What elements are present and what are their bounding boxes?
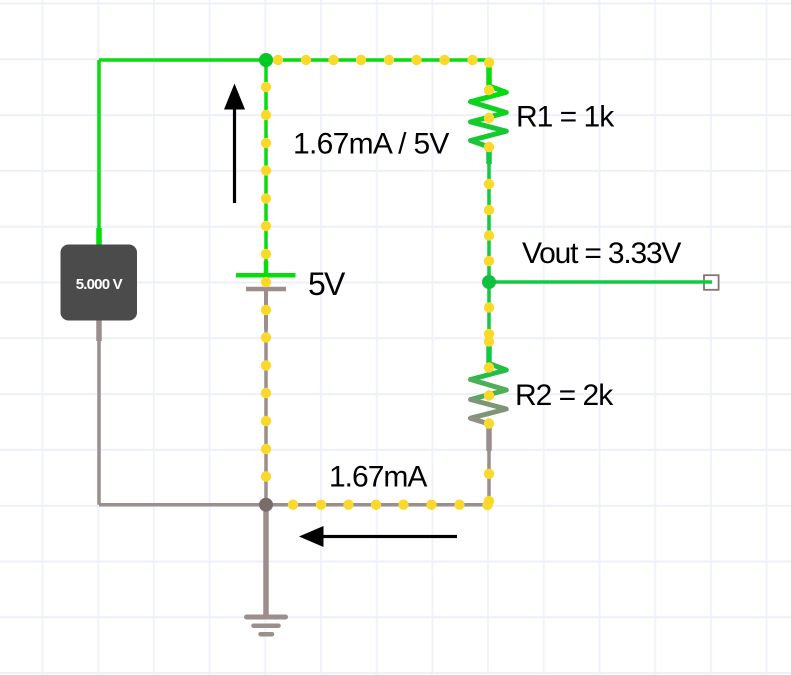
wire: Vout junction to R2 (487, 282, 491, 345)
svg-text:R2 = 2k: R2 = 2k (515, 379, 614, 412)
svg-text:1.67mA: 1.67mA (329, 461, 427, 494)
current arrow left (299, 526, 457, 547)
battery V1: top wire from junction (264, 60, 268, 262)
junction node: top (5V net) (259, 53, 273, 67)
current dots: R1 branch (484, 85, 494, 266)
output terminal post (704, 275, 719, 290)
wire: bottom rail left segment (99, 503, 266, 507)
junction node: bottom (ground net) (259, 498, 273, 512)
resistor R2 top lead (486, 344, 492, 364)
svg-text:R1 = 1k: R1 = 1k (516, 101, 615, 134)
wire: Vout junction to output terminal (489, 280, 712, 284)
resistor R2 zigzag (471, 364, 507, 425)
wire: left vertical down to voltmeter (97, 60, 101, 230)
battery V1: negative plate (246, 287, 286, 292)
junction node: Vout (3.33V net) (482, 275, 496, 289)
svg-text:Vout = 3.33V: Vout = 3.33V (522, 237, 681, 270)
current dots: battery branch (261, 82, 271, 482)
resistor R1 zigzag (471, 86, 507, 147)
voltmeter top lead (96, 228, 102, 246)
battery V1: positive lead (264, 261, 269, 274)
svg-text:5V: 5V (308, 266, 346, 302)
wire: R1 to Vout junction (487, 164, 491, 282)
current arrow up (224, 84, 245, 204)
wire: top rail left segment (junction to top-left corner) (99, 58, 489, 62)
current dots: top wire (273, 55, 494, 68)
resistor R1 bottom lead (486, 147, 492, 164)
svg-text:5.000 V: 5.000 V (76, 276, 123, 293)
wire: voltmeter to bottom rail (97, 341, 101, 505)
voltmeter bottom lead (96, 319, 102, 341)
current dots: R2 branch (482, 302, 494, 510)
voltmeter M1 body (61, 245, 138, 321)
wire: R2 to bottom rail corner (487, 451, 491, 505)
current dots: bottom wire (288, 500, 465, 510)
svg-text:1.67mA / 5V: 1.67mA / 5V (293, 128, 449, 161)
battery V1: negative lead (264, 290, 268, 330)
battery V1: positive plate (236, 273, 296, 278)
ground symbol (247, 617, 286, 634)
wire: battery to bottom junction (264, 330, 268, 505)
resistor R2 bottom lead (486, 424, 492, 451)
wire: bottom rail right segment (266, 503, 489, 507)
ground lead (263, 505, 269, 615)
resistor R1 top lead (486, 60, 492, 87)
